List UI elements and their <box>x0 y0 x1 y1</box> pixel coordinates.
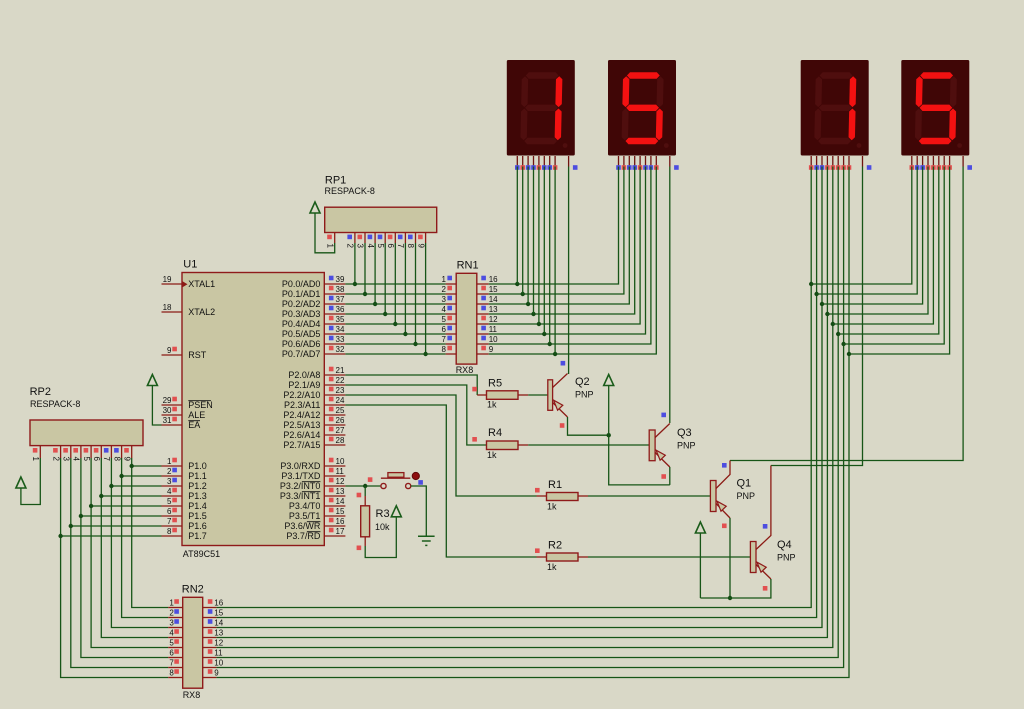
push button <box>381 472 420 488</box>
U1 pin 33 P0.6/AD6 <box>324 335 345 344</box>
wire P1.1 to RP2 pin 8 <box>122 475 162 477</box>
node Q4 collector <box>763 524 768 529</box>
svg-text:4: 4 <box>167 487 172 496</box>
U1 pin 29 PSEN <box>162 396 183 405</box>
svg-text:P1.0: P1.0 <box>188 461 207 471</box>
RN2 pin 16 <box>203 599 224 608</box>
U1 pin 34 P0.5/AD5 <box>324 325 345 334</box>
svg-text:9: 9 <box>122 457 131 462</box>
node R2 left terminal <box>535 548 540 553</box>
svg-text:1k: 1k <box>547 562 557 572</box>
svg-text:6: 6 <box>92 457 101 462</box>
svg-text:6: 6 <box>386 244 395 249</box>
svg-text:14: 14 <box>336 497 345 506</box>
junction DS1 segment 6 <box>542 332 546 336</box>
U1 pin 32 P0.7/AD7 <box>324 345 345 354</box>
svg-text:16: 16 <box>489 275 498 284</box>
svg-text:P0.6/AD6: P0.6/AD6 <box>282 339 321 349</box>
svg-text:22: 22 <box>336 376 345 385</box>
node button right terminal <box>418 480 423 485</box>
svg-text:R3: R3 <box>376 508 390 520</box>
resistor R2 1k <box>537 540 579 573</box>
wire RP2 pin 3 to RN2 pin 7 <box>71 458 168 668</box>
junction P1.2 <box>109 484 113 488</box>
wire DS4 common anode to Q1 collector <box>730 167 963 461</box>
svg-text:P3.0/RXD: P3.0/RXD <box>280 461 321 471</box>
transistor Q1 PNP <box>710 461 755 519</box>
svg-text:16: 16 <box>214 599 223 608</box>
wire R4 to Q3 base <box>518 444 528 446</box>
resistor R3 10k <box>361 506 390 537</box>
svg-text:P0.2/AD2: P0.2/AD2 <box>282 299 321 309</box>
RP1 pin 1 <box>325 233 334 249</box>
junction DS3 segment 4 <box>825 312 829 316</box>
junction DS3 segment 7 <box>841 342 845 346</box>
U1 pin 35 P0.4/AD4 <box>324 315 345 324</box>
RN2 pin 4 <box>168 629 183 638</box>
svg-text:37: 37 <box>336 295 345 304</box>
U1 pin name labels <box>188 279 321 541</box>
RP1 pin 3 <box>356 233 365 249</box>
svg-text:14: 14 <box>489 295 498 304</box>
node R4 left terminal <box>472 437 477 442</box>
RN2 pin 2 <box>168 609 183 618</box>
RP2 pin 6 <box>92 446 101 462</box>
svg-text:1: 1 <box>169 599 174 608</box>
svg-text:33: 33 <box>336 335 345 344</box>
svg-text:29: 29 <box>163 396 172 405</box>
RN2 pin 15 <box>203 609 224 618</box>
svg-text:AT89C51: AT89C51 <box>183 549 220 559</box>
node R3 bottom terminal <box>357 546 362 551</box>
svg-text:10: 10 <box>489 335 498 344</box>
RP1 pin 6 <box>386 233 395 249</box>
wire DS2 common anode to Q3 collector <box>669 167 671 424</box>
svg-text:24: 24 <box>336 396 345 405</box>
svg-text:9: 9 <box>214 669 219 678</box>
node Q2 collector <box>561 361 566 366</box>
svg-text:39: 39 <box>336 275 345 284</box>
wire DS1 segment pin 2 <box>522 167 524 295</box>
wire DS1 segment pin 5 <box>538 167 540 325</box>
U1 pin 2 P1.1 <box>162 467 183 476</box>
wire P0.6 to RN1 pin 7 <box>345 343 445 345</box>
U1 pin 19 XTAL1 <box>162 275 183 284</box>
svg-text:P0.3/AD3: P0.3/AD3 <box>282 309 321 319</box>
wire RN2 pin 15 to DS3 segment pin 2 <box>216 167 816 618</box>
power arrow near RP2 pin1 <box>16 477 26 488</box>
U1 pin 17 P3.7 <box>324 527 345 536</box>
wire R5 to Q2 base <box>518 394 528 396</box>
resistor R1 1k <box>537 479 579 512</box>
U1 pin 12 P3.2 <box>324 477 345 486</box>
wire RN2 pin 10 to DS3 segment pin 7 <box>216 167 843 668</box>
junction P1.3 <box>99 494 103 498</box>
wire R1 to Q1 base <box>578 495 588 497</box>
svg-text:P2.7/A15: P2.7/A15 <box>283 440 320 450</box>
junction DS3 segment 2 <box>814 292 818 296</box>
svg-text:2: 2 <box>346 244 355 249</box>
7-segment display DS2 showing 5 <box>608 60 679 170</box>
junction P1.7 <box>58 534 62 538</box>
svg-text:P2.6/A14: P2.6/A14 <box>283 430 320 440</box>
wire P2.1 to R4 <box>345 385 486 445</box>
wire P0.4 to RN1 pin 5 <box>345 323 445 325</box>
RN1 pin 16 <box>477 275 498 284</box>
U1 pin 24 P2.3/A11 <box>324 396 345 405</box>
wire DS3 to DS4 segment 5 <box>833 167 934 325</box>
RN1 pin 10 <box>477 335 498 344</box>
svg-text:13: 13 <box>489 305 498 314</box>
U1 pin 37 P0.2/AD2 <box>324 295 345 304</box>
wire P1.2 to RP2 pin 7 <box>111 485 161 487</box>
wire RN2 pin 16 to DS3 segment pin 1 <box>216 167 811 608</box>
wire P1.7 to RP2 pin 2 <box>61 535 162 537</box>
node R1 left terminal <box>535 488 540 493</box>
svg-text:P0.5/AD5: P0.5/AD5 <box>282 329 321 339</box>
RN2 pin 3 <box>168 619 183 628</box>
wire VCC stem Q1 Q4 <box>699 533 701 598</box>
wire EA to VCC <box>152 386 161 426</box>
wire R2 to Q4 base <box>578 556 588 558</box>
wire RN1 pin 15 segment bus to displays DS1 DS2 <box>489 167 624 295</box>
svg-text:36: 36 <box>336 305 345 314</box>
svg-text:6: 6 <box>442 325 447 334</box>
RP1 pin 9 <box>416 233 425 249</box>
node Q4 emitter <box>763 586 768 591</box>
wire RP1 pin1 to VCC <box>315 213 335 253</box>
wire RN2 pin 11 to DS3 segment pin 6 <box>216 167 838 658</box>
power arrow Q1 Q4 <box>695 522 705 533</box>
wire RP2 pin 5 to RN2 pin 5 <box>91 458 168 648</box>
wire R3 bottom to VCC <box>364 537 366 546</box>
svg-text:15: 15 <box>489 285 498 294</box>
node Q2 emitter <box>560 423 565 428</box>
svg-text:12: 12 <box>489 315 498 324</box>
svg-text:35: 35 <box>336 315 345 324</box>
svg-text:3: 3 <box>356 244 365 249</box>
junction DS1 segment 7 <box>548 342 552 346</box>
resistor network RN2 RX8 <box>182 584 204 701</box>
wire DS1 segment pin 1 <box>516 167 518 285</box>
svg-text:15: 15 <box>336 507 345 516</box>
U1 pin 38 P0.1/AD1 <box>324 285 345 294</box>
power arrow near RP1 <box>310 202 320 213</box>
svg-text:5: 5 <box>82 457 91 462</box>
RN2 pin 5 <box>168 639 183 648</box>
wire DS1 segment pin 4 <box>533 167 535 315</box>
svg-text:3: 3 <box>167 477 172 486</box>
wire RN1 pin 16 segment bus to displays DS1 DS2 <box>489 167 619 285</box>
U1 pin 8 P1.7 <box>162 527 183 536</box>
node button left terminal <box>368 477 373 482</box>
svg-text:Q3: Q3 <box>677 427 692 439</box>
junction DS1 segment 5 <box>537 322 541 326</box>
svg-text:38: 38 <box>336 285 345 294</box>
svg-text:RST: RST <box>188 350 207 360</box>
wire RP1 pin 7 down to P0.5 bus <box>404 243 406 334</box>
svg-text:19: 19 <box>163 275 172 284</box>
RN1 pin 3 <box>442 295 457 304</box>
junction DS1 segment 4 <box>531 312 535 316</box>
wire DS1 segment pin 7 <box>549 167 551 345</box>
wire RP1 pin 8 down to P0.6 bus <box>415 243 417 344</box>
svg-text:1k: 1k <box>487 400 497 410</box>
svg-text:10: 10 <box>336 457 345 466</box>
wire DS3 to DS4 segment 1 <box>811 167 912 285</box>
wire RP1 pin 3 down to P0.1 bus <box>364 243 366 294</box>
resistor pack RP1 RESPACK-8 <box>325 175 437 233</box>
junction P1.4 <box>89 504 93 508</box>
svg-text:1: 1 <box>325 244 334 249</box>
svg-text:9: 9 <box>489 345 494 354</box>
svg-text:10k: 10k <box>375 522 390 532</box>
wire button to ground <box>411 486 427 536</box>
svg-text:18: 18 <box>163 303 172 312</box>
svg-text:3: 3 <box>442 295 447 304</box>
power arrow near R3 <box>391 506 401 517</box>
RN2 pin 13 <box>203 629 224 638</box>
svg-text:8: 8 <box>169 669 174 678</box>
svg-text:7: 7 <box>169 659 174 668</box>
svg-text:13: 13 <box>336 487 345 496</box>
RP2 pin 9 <box>122 446 131 462</box>
RN2 pin 6 <box>168 649 183 658</box>
svg-text:RESPACK-8: RESPACK-8 <box>325 186 375 196</box>
svg-text:5: 5 <box>376 244 385 249</box>
svg-text:4: 4 <box>366 244 375 249</box>
svg-text:RP2: RP2 <box>30 386 51 398</box>
svg-text:XTAL1: XTAL1 <box>188 279 215 289</box>
svg-text:11: 11 <box>214 649 223 658</box>
svg-text:7: 7 <box>167 517 172 526</box>
wire DS3 to DS4 segment 8 <box>849 167 950 355</box>
resistor network RN1 RX8 <box>456 260 479 376</box>
svg-text:6: 6 <box>167 507 172 516</box>
U1 pin 28 P2.7/A15 <box>324 436 345 445</box>
U1 pin 30 ALE <box>162 406 183 415</box>
resistor R5 1k <box>477 377 518 409</box>
svg-text:8: 8 <box>167 527 172 536</box>
wire RN2 pin 12 to DS3 segment pin 5 <box>216 167 832 648</box>
wire DS3 common anode to Q4 collector <box>771 167 863 466</box>
U1 pin 27 P2.6/A14 <box>324 426 345 435</box>
RP2 pin 1 <box>31 446 40 462</box>
wire P0.2 to RN1 pin 3 <box>345 303 445 305</box>
wire DS1 segment pin 6 <box>543 167 545 335</box>
svg-text:P1.1: P1.1 <box>188 471 207 481</box>
svg-text:RX8: RX8 <box>456 365 474 375</box>
RN2 pin 10 <box>203 659 224 668</box>
RP2 pin 7 <box>102 446 111 462</box>
wire P1.0 to RP2 pin 9 <box>132 465 162 467</box>
wire Q1 emitter to VCC rail <box>729 518 731 598</box>
svg-text:4: 4 <box>169 629 174 638</box>
svg-text:P2.0/A8: P2.0/A8 <box>288 370 320 380</box>
svg-text:P1.5: P1.5 <box>188 511 207 521</box>
svg-text:9: 9 <box>167 346 172 355</box>
svg-text:17: 17 <box>336 527 345 536</box>
RN1 pin 11 <box>477 325 498 334</box>
svg-text:3: 3 <box>62 457 71 462</box>
RP2 pin 2 <box>51 446 60 462</box>
ground symbol <box>418 536 435 545</box>
svg-text:27: 27 <box>336 426 345 435</box>
node Q1 emitter <box>722 524 727 529</box>
node Q3 emitter <box>661 474 666 479</box>
U1 pin 22 P2.1/A9 <box>324 376 345 385</box>
RN2 pin 12 <box>203 639 224 648</box>
svg-text:PNP: PNP <box>777 553 796 563</box>
junction DS3 segment 3 <box>820 302 824 306</box>
junction P1.6 <box>69 524 73 528</box>
resistor pack RP2 RESPACK-8 <box>30 386 143 446</box>
U1 pin 6 P1.5 <box>162 507 183 516</box>
microcontroller U1 AT89C51 body <box>182 259 324 560</box>
junction DS1 segment 3 <box>526 302 530 306</box>
RN2 pin 11 <box>203 649 223 658</box>
wire P0.5 to RN1 pin 6 <box>345 333 445 335</box>
U1 pin 21 P2.0/A8 <box>324 366 345 375</box>
RN1 pin 2 <box>442 285 457 294</box>
wire P2.3 to R2 <box>345 405 536 557</box>
svg-text:16: 16 <box>336 517 345 526</box>
wire P1.6 to RP2 pin 3 <box>71 525 162 527</box>
RN1 pin 6 <box>442 325 457 334</box>
wire P1.3 to RP2 pin 6 <box>101 495 161 497</box>
svg-text:RN1: RN1 <box>457 260 479 272</box>
svg-text:2: 2 <box>167 467 172 476</box>
svg-text:8: 8 <box>442 345 447 354</box>
svg-text:P1.6: P1.6 <box>188 521 207 531</box>
RN2 pin 1 <box>168 599 183 608</box>
7-segment display DS3 showing 1 <box>801 60 872 170</box>
U1 pin 16 P3.6 <box>324 517 345 526</box>
junction DS3 segment 8 <box>847 352 851 356</box>
U1 pin 4 P1.3 <box>162 487 183 496</box>
wire RP1 pin 6 down to P0.4 bus <box>394 243 396 324</box>
RN2 pin 14 <box>203 619 224 628</box>
wire P1.5 to RP2 pin 4 <box>81 515 162 517</box>
svg-text:P3.5/T1: P3.5/T1 <box>289 511 321 521</box>
RN1 pin 15 <box>477 285 498 294</box>
svg-text:P1.4: P1.4 <box>188 501 207 511</box>
svg-text:8: 8 <box>406 244 415 249</box>
U1 pin 7 P1.6 <box>162 517 183 526</box>
wire RP2 pin1 to VCC <box>21 458 40 505</box>
wire RP1 pin 4 down to P0.2 bus <box>374 243 376 304</box>
svg-text:P1.3: P1.3 <box>188 491 207 501</box>
RN1 pin 1 <box>442 275 457 284</box>
wire VCC rail to Q3 emitter <box>609 386 670 485</box>
svg-text:P0.7/AD7: P0.7/AD7 <box>282 349 321 359</box>
node Q1 collector <box>722 463 727 468</box>
U1 pin 3 P1.2 <box>162 477 183 486</box>
svg-text:14: 14 <box>214 619 223 628</box>
RN2 pin 7 <box>168 659 183 668</box>
wire DS3 to DS4 segment 3 <box>822 167 923 305</box>
U1 pin 5 P1.4 <box>162 497 183 506</box>
svg-text:P2.1/A9: P2.1/A9 <box>288 380 320 390</box>
svg-text:1: 1 <box>31 457 40 462</box>
svg-text:11: 11 <box>336 467 345 476</box>
svg-text:1: 1 <box>167 457 172 466</box>
svg-text:U1: U1 <box>183 259 197 271</box>
wire RP1 pin 2 down to P0.0 bus <box>354 243 356 284</box>
svg-text:28: 28 <box>336 436 345 445</box>
RN1 pin 14 <box>477 295 498 304</box>
wire RP2 pin 4 to RN2 pin 6 <box>81 458 168 658</box>
node Q3 collector <box>661 413 666 418</box>
wire RN2 pin 13 to DS3 segment pin 4 <box>216 167 827 638</box>
RN1 pin 4 <box>442 305 457 314</box>
svg-text:P3.1/TXD: P3.1/TXD <box>281 471 321 481</box>
junction P1.1 <box>119 474 123 478</box>
wire P1.4 to RP2 pin 5 <box>91 505 161 507</box>
RP1 pin 2 <box>346 233 355 249</box>
svg-text:P2.3/A11: P2.3/A11 <box>284 400 320 410</box>
junction DS1 segment 1 <box>515 282 519 286</box>
svg-text:15: 15 <box>214 609 223 618</box>
svg-text:P3.6/WR: P3.6/WR <box>284 521 321 531</box>
RP2 pin 8 <box>112 446 121 462</box>
svg-text:9: 9 <box>416 244 425 249</box>
wire RN1 pin 9 segment bus to displays DS1 DS2 <box>489 167 657 355</box>
U1 pin 15 P3.5 <box>324 507 345 516</box>
svg-text:Q2: Q2 <box>575 376 590 388</box>
U1 pin 25 P2.4/A12 <box>324 406 345 415</box>
svg-text:P1.2: P1.2 <box>188 481 207 491</box>
svg-text:1k: 1k <box>487 450 497 460</box>
svg-text:Q1: Q1 <box>737 478 752 490</box>
svg-text:RESPACK-8: RESPACK-8 <box>30 399 80 409</box>
wire RN1 pin 13 segment bus to displays DS1 DS2 <box>489 167 635 315</box>
junction DS3 segment 6 <box>836 332 840 336</box>
wire RP2 pin 8 to RN2 pin 2 <box>122 458 169 618</box>
power arrow Q2 Q3 <box>604 375 614 386</box>
U1 pin 23 P2.2/A10 <box>324 386 345 395</box>
wire DS3 to DS4 segment 2 <box>817 167 918 295</box>
svg-text:PSEN: PSEN <box>188 400 213 410</box>
svg-text:26: 26 <box>336 416 345 425</box>
wire RN1 pin 11 segment bus to displays DS1 DS2 <box>489 167 646 335</box>
wire RN2 pin 14 to DS3 segment pin 3 <box>216 167 822 628</box>
wire DS1 segment pin 3 <box>527 167 529 305</box>
svg-text:RX8: RX8 <box>183 690 201 700</box>
wire RN2 pin 9 to DS3 segment pin 8 <box>216 167 849 678</box>
svg-text:3: 3 <box>169 619 174 628</box>
svg-text:30: 30 <box>163 406 172 415</box>
svg-text:P0.1/AD1: P0.1/AD1 <box>282 289 321 299</box>
junction P1.0 <box>130 464 134 468</box>
svg-text:P2.5/A13: P2.5/A13 <box>283 420 320 430</box>
U1 pin 36 P0.3/AD3 <box>324 305 345 314</box>
svg-text:P3.2/INT0: P3.2/INT0 <box>280 481 321 491</box>
U1 pin 18 XTAL2 <box>162 303 183 312</box>
wire RN1 pin 12 segment bus to displays DS1 DS2 <box>489 167 640 325</box>
svg-text:P2.4/A12: P2.4/A12 <box>283 410 320 420</box>
svg-text:R1: R1 <box>548 479 562 491</box>
svg-text:10: 10 <box>214 659 223 668</box>
wire P3.2 junction down to R3 <box>364 486 366 496</box>
RP2 pin 3 <box>62 446 71 462</box>
U1 pin 14 P3.4 <box>324 497 345 506</box>
node R5 left terminal <box>472 387 477 392</box>
junction DS1 segment 8 <box>553 352 557 356</box>
svg-text:PNP: PNP <box>575 390 594 400</box>
junction Q2 emitter VCC <box>607 433 611 437</box>
svg-text:34: 34 <box>336 325 345 334</box>
